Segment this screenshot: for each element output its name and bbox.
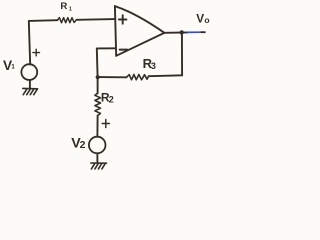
wire: output tip [202,31,205,33]
ground (below V1) [23,88,38,94]
label V2 [71,135,85,151]
svg-text:2: 2 [80,139,86,151]
wire: V1 top up to corner and right to R1 [29,20,58,64]
svg-text:1: 1 [69,7,72,13]
label R2 [101,91,114,105]
node: inverting junction [96,75,100,79]
label R3 [143,56,156,71]
wire: junction down to R2 [97,77,99,93]
wire: R1 to op-amp non-inverting input [76,18,115,21]
polarity plus of V1 [33,49,40,56]
polarity plus of V2 [102,120,109,128]
label V1 [3,58,15,73]
wire: R2 down to V2 [96,116,98,137]
wire: inverting input [97,48,115,77]
svg-text:R: R [60,1,67,12]
wire: output continues right (blue pen) [188,31,202,33]
source V2 [89,137,106,154]
wire: output junction down to feedback [181,32,183,75]
wire: feedback right horizontal [149,74,183,77]
resistor R1 [58,18,77,23]
svg-text:V: V [196,12,204,26]
svg-text:3: 3 [151,61,156,71]
wire: V2 to ground [96,153,98,163]
ground (below V2) [91,163,107,169]
svg-text:1: 1 [11,64,15,71]
node: output junction [180,30,184,34]
label R1 [60,1,72,12]
op-amp U1 [115,6,164,56]
wire: op-amp output [164,31,187,33]
source V1 [21,64,37,80]
resistor R3 [127,75,149,80]
wire: feedback left horizontal [98,76,127,78]
label Vo [196,12,209,26]
svg-text:o: o [204,15,209,25]
wire: V1 to ground [29,80,31,88]
resistor R2 [95,93,101,115]
svg-text:2: 2 [109,95,114,105]
